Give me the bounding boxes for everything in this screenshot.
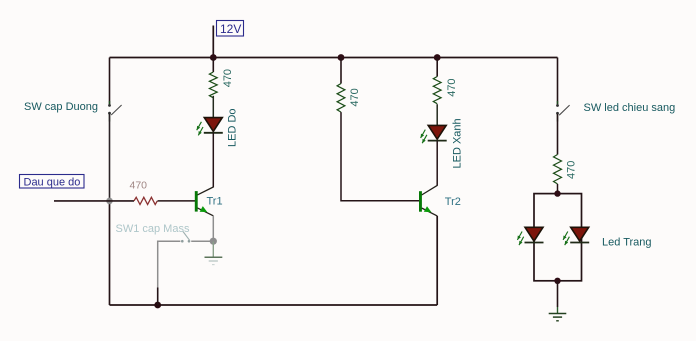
transistor Q1 Tr1 [195,187,214,216]
power label 12V [217,21,244,37]
wire top rail [110,57,558,59]
wire left branch middle [109,114,111,201]
ground symbol at Tr1 emitter (faded) [205,241,223,264]
wire left branch upper [109,58,111,105]
wire column D from top rail to R3 [436,58,438,77]
wire SW1 branch down to bottom rail (dark lower part) [157,288,159,306]
resistor R2 470 [337,84,345,113]
wire R2 down and over to Tr2 base [341,112,419,201]
resistor R4 470 horizontal [134,197,157,204]
wire SW1 left lead [158,240,181,242]
wire rectangle bottom to ground [557,281,559,307]
LED D1 LED Do [197,118,223,136]
wire bottom rail [110,304,438,306]
wire R5 to parallel LED rectangle top [557,184,559,194]
node junction probe line with left branch (grey) [106,198,113,205]
svg-text:470: 470 [349,88,361,106]
node junction rectangle top [554,190,560,196]
wire left branch lower [109,201,111,305]
wire SW1 right lead to junction [191,240,213,242]
svg-text:LED Do: LED Do [227,108,239,147]
wire Tr1 emitter down (grey net) [212,216,214,241]
transistor Q2 Tr2 [419,185,437,216]
wire R1 to LED Do [212,96,214,118]
wire LED Do cathode to Tr1 collector [212,133,214,188]
wire SW to R5 [557,114,559,155]
LED D4 Led Trang right [563,227,589,245]
resistor R5 470 [554,155,562,184]
svg-text:Led Trang: Led Trang [602,237,652,249]
wire SW1 branch down to bottom rail (grey upper part) [157,241,159,288]
svg-text:470: 470 [222,69,234,87]
label box Dau que do [20,175,85,189]
resistor R1 470 [209,72,217,98]
node junction rectangle bottom [554,278,560,284]
wire parallel LED loop [534,194,582,281]
switch SW led chieu sang [556,101,570,122]
svg-text:SW led chieu sang: SW led chieu sang [584,102,676,114]
wire R4 to Tr1 base [158,200,196,202]
wire Tr2 emitter down to bottom rail [436,216,438,305]
power terminal 12V stem wire [212,26,214,58]
wire LED Xanh cathode to Tr2 collector [436,141,438,186]
svg-text:470: 470 [130,180,148,192]
node junction bottom rail at SW1 branch [154,302,161,309]
svg-text:470: 470 [446,78,458,96]
svg-text:12V: 12V [220,22,241,36]
wire top rail right corner down to SW [557,58,559,105]
wire column C from top rail to R2 [340,58,342,84]
node junction top rail at 12V branch [210,54,217,61]
node junction Tr1 emitter / SW1 / ground (grey) [210,238,217,245]
svg-text:SW1 cap Mass: SW1 cap Mass [116,223,190,235]
LED D3 Led Trang left [517,227,543,245]
svg-text:SW cap Duong: SW cap Duong [24,101,98,113]
node junction top rail at R2 branch [338,54,345,61]
wire column B from top rail to R1 [212,58,214,73]
resistor R3 470 [433,77,441,104]
wire probe lead (Dau que do) [54,200,134,202]
LED D2 LED Xanh [421,125,447,143]
svg-text:Tr1: Tr1 [207,196,223,208]
ground symbol below Led Trang [549,307,567,321]
switch SW cap Duong [108,101,122,122]
wire R3 to LED Xanh [436,104,438,126]
node junction top rail at R3 branch [434,54,441,61]
switch SW1 cap Mass [181,232,190,243]
svg-text:Tr2: Tr2 [445,196,461,208]
svg-text:LED Xanh: LED Xanh [452,118,464,168]
svg-text:Dau que do: Dau que do [24,176,81,188]
svg-text:470: 470 [566,161,578,179]
